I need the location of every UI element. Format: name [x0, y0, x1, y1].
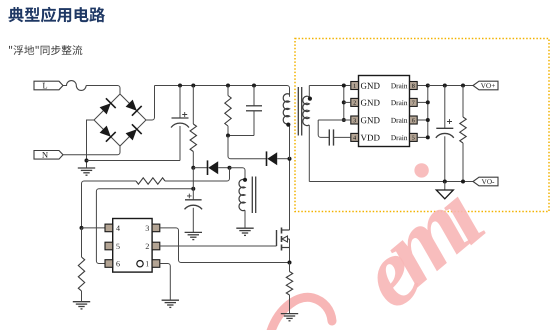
fuse F1: [63, 81, 86, 91]
wire drain bus to VO+: [428, 85, 473, 87]
transistor Q1 MOSFET: [277, 159, 290, 263]
junction R5 bottom: [461, 180, 465, 184]
wire VCC node vertical: [192, 168, 194, 200]
Drain bus: [417, 84, 430, 140]
capacitor C3 clamp: [246, 86, 262, 136]
junction VCC cap node: [191, 187, 195, 191]
aux polarity dot: [243, 178, 247, 182]
junction source sense: [288, 261, 292, 265]
wire R2 to pin4 node: [82, 181, 137, 228]
ground under U1 pin 1: [162, 300, 179, 307]
GND bus vertical: [343, 86, 345, 121]
junction bus pin2: [342, 100, 346, 104]
terminal L: [34, 81, 63, 90]
title text 典型应用电路: [9, 7, 106, 23]
transformer T1 primary winding: [283, 94, 289, 159]
junction clamp: [226, 134, 230, 138]
output ground triangle: [436, 182, 453, 199]
resistor R4 current sense: [286, 263, 292, 314]
wire VCC node to U1 pin 6: [96, 189, 193, 264]
junction bottom-left rail: [85, 159, 89, 163]
wire pin4 node to U1 pin 4: [82, 227, 106, 229]
resistor R5 output load: [460, 86, 466, 182]
junction C5 top: [443, 84, 447, 88]
ground under R3: [73, 302, 90, 309]
wire secondary top to U2 pin 1: [309, 85, 351, 87]
junction aux node: [228, 166, 232, 170]
terminal N: [34, 151, 63, 160]
wire aux node to aux winding: [230, 168, 246, 180]
ground under R4: [281, 314, 298, 321]
junction rail C1: [178, 84, 182, 88]
wire C4 to U2 pin 4 VDD: [334, 136, 351, 138]
transformer T1 aux winding: [239, 179, 245, 228]
secondary-side dashed boundary box: [295, 39, 549, 212]
wire bus to U2 pin 2: [344, 101, 351, 103]
secondary polarity dot: [308, 97, 312, 101]
capacitor C2 VCC: [185, 194, 203, 233]
capacitor C4 VDD bypass: [329, 129, 333, 145]
diode D1 aux rectifier: [193, 160, 229, 175]
transformer T1 secondary winding: [303, 86, 310, 182]
ground under C2: [185, 232, 202, 239]
junction C5 bottom: [443, 180, 447, 184]
junction rail R2c: [226, 84, 230, 88]
ground under aux winding: [236, 228, 253, 235]
subtitle text 浮地同步整流: [9, 45, 82, 55]
transformer core: [298, 87, 301, 136]
diode D2 clamp: [267, 151, 290, 166]
wire L to bridge: [86, 86, 120, 95]
watermark: [271, 163, 487, 331]
VO- rail: [309, 181, 473, 183]
wire U1 pin 2 to gate: [160, 245, 277, 247]
capacitor C1 bulk electrolytic: [171, 86, 189, 161]
primary polarity dot: [286, 123, 290, 127]
resistor R1 startup: [190, 86, 196, 168]
junction pin4 node: [80, 226, 84, 230]
wire U1 pin 3 to current sense: [160, 228, 290, 263]
wire clamp node: [228, 135, 254, 137]
wire N to bridge: [63, 146, 120, 155]
floating ground under bridge: [78, 168, 95, 175]
wire GND down to C4: [318, 120, 329, 137]
junction bus pin1: [342, 84, 346, 88]
top rail: [155, 86, 290, 97]
junction VCC node: [191, 166, 195, 170]
aux core: [252, 177, 255, 214]
terminal VO-: [473, 177, 498, 186]
resistor R2 feedback upper: [136, 178, 165, 184]
wire GND to U2 pin 3: [318, 119, 351, 121]
wire clamp to D2: [228, 136, 266, 159]
junction bus pin3: [342, 118, 346, 122]
junction drain clamp: [288, 157, 292, 161]
IC U2 synchronous rectifier 8-pin: [351, 76, 417, 147]
wire aux node down to R2 line: [165, 168, 230, 181]
wire bridge right corner to top rail: [146, 86, 155, 121]
junction R5 top: [461, 84, 465, 88]
junction rail R1: [191, 84, 195, 88]
capacitor C5 output electrolytic: [436, 86, 454, 182]
terminal VO+: [473, 81, 498, 90]
wire U1 pin 1 to ground: [160, 264, 171, 301]
junction rail C3: [252, 84, 256, 88]
wire bottom rail to C1: [87, 160, 181, 162]
resistor R2c clamp: [225, 86, 231, 136]
bridge rectifier BR1: [94, 94, 146, 146]
wire bridge left corner to floating ground: [87, 120, 95, 168]
resistor R3 feedback lower: [78, 228, 84, 302]
IC U1 controller 6-pin: [105, 219, 160, 273]
